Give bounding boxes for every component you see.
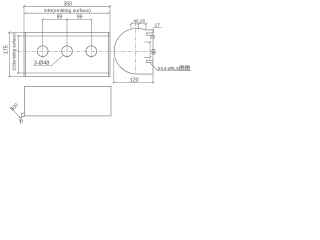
svg-text:340(emitting surface): 340(emitting surface) (44, 8, 92, 13)
svg-text:175: 175 (3, 45, 9, 54)
svg-text:350: 350 (64, 1, 73, 7)
svg-text:60: 60 (152, 49, 158, 55)
svg-text:150(emitting surface): 150(emitting surface) (12, 33, 17, 71)
svg-text:13: 13 (150, 35, 156, 41)
svg-text:2X4-Ø5.5: 2X4-Ø5.5 (158, 66, 180, 72)
svg-text:99: 99 (57, 15, 63, 21)
svg-text:99: 99 (77, 15, 83, 21)
svg-text:120: 120 (130, 78, 139, 84)
svg-text:3-Ø48: 3-Ø48 (34, 61, 50, 67)
